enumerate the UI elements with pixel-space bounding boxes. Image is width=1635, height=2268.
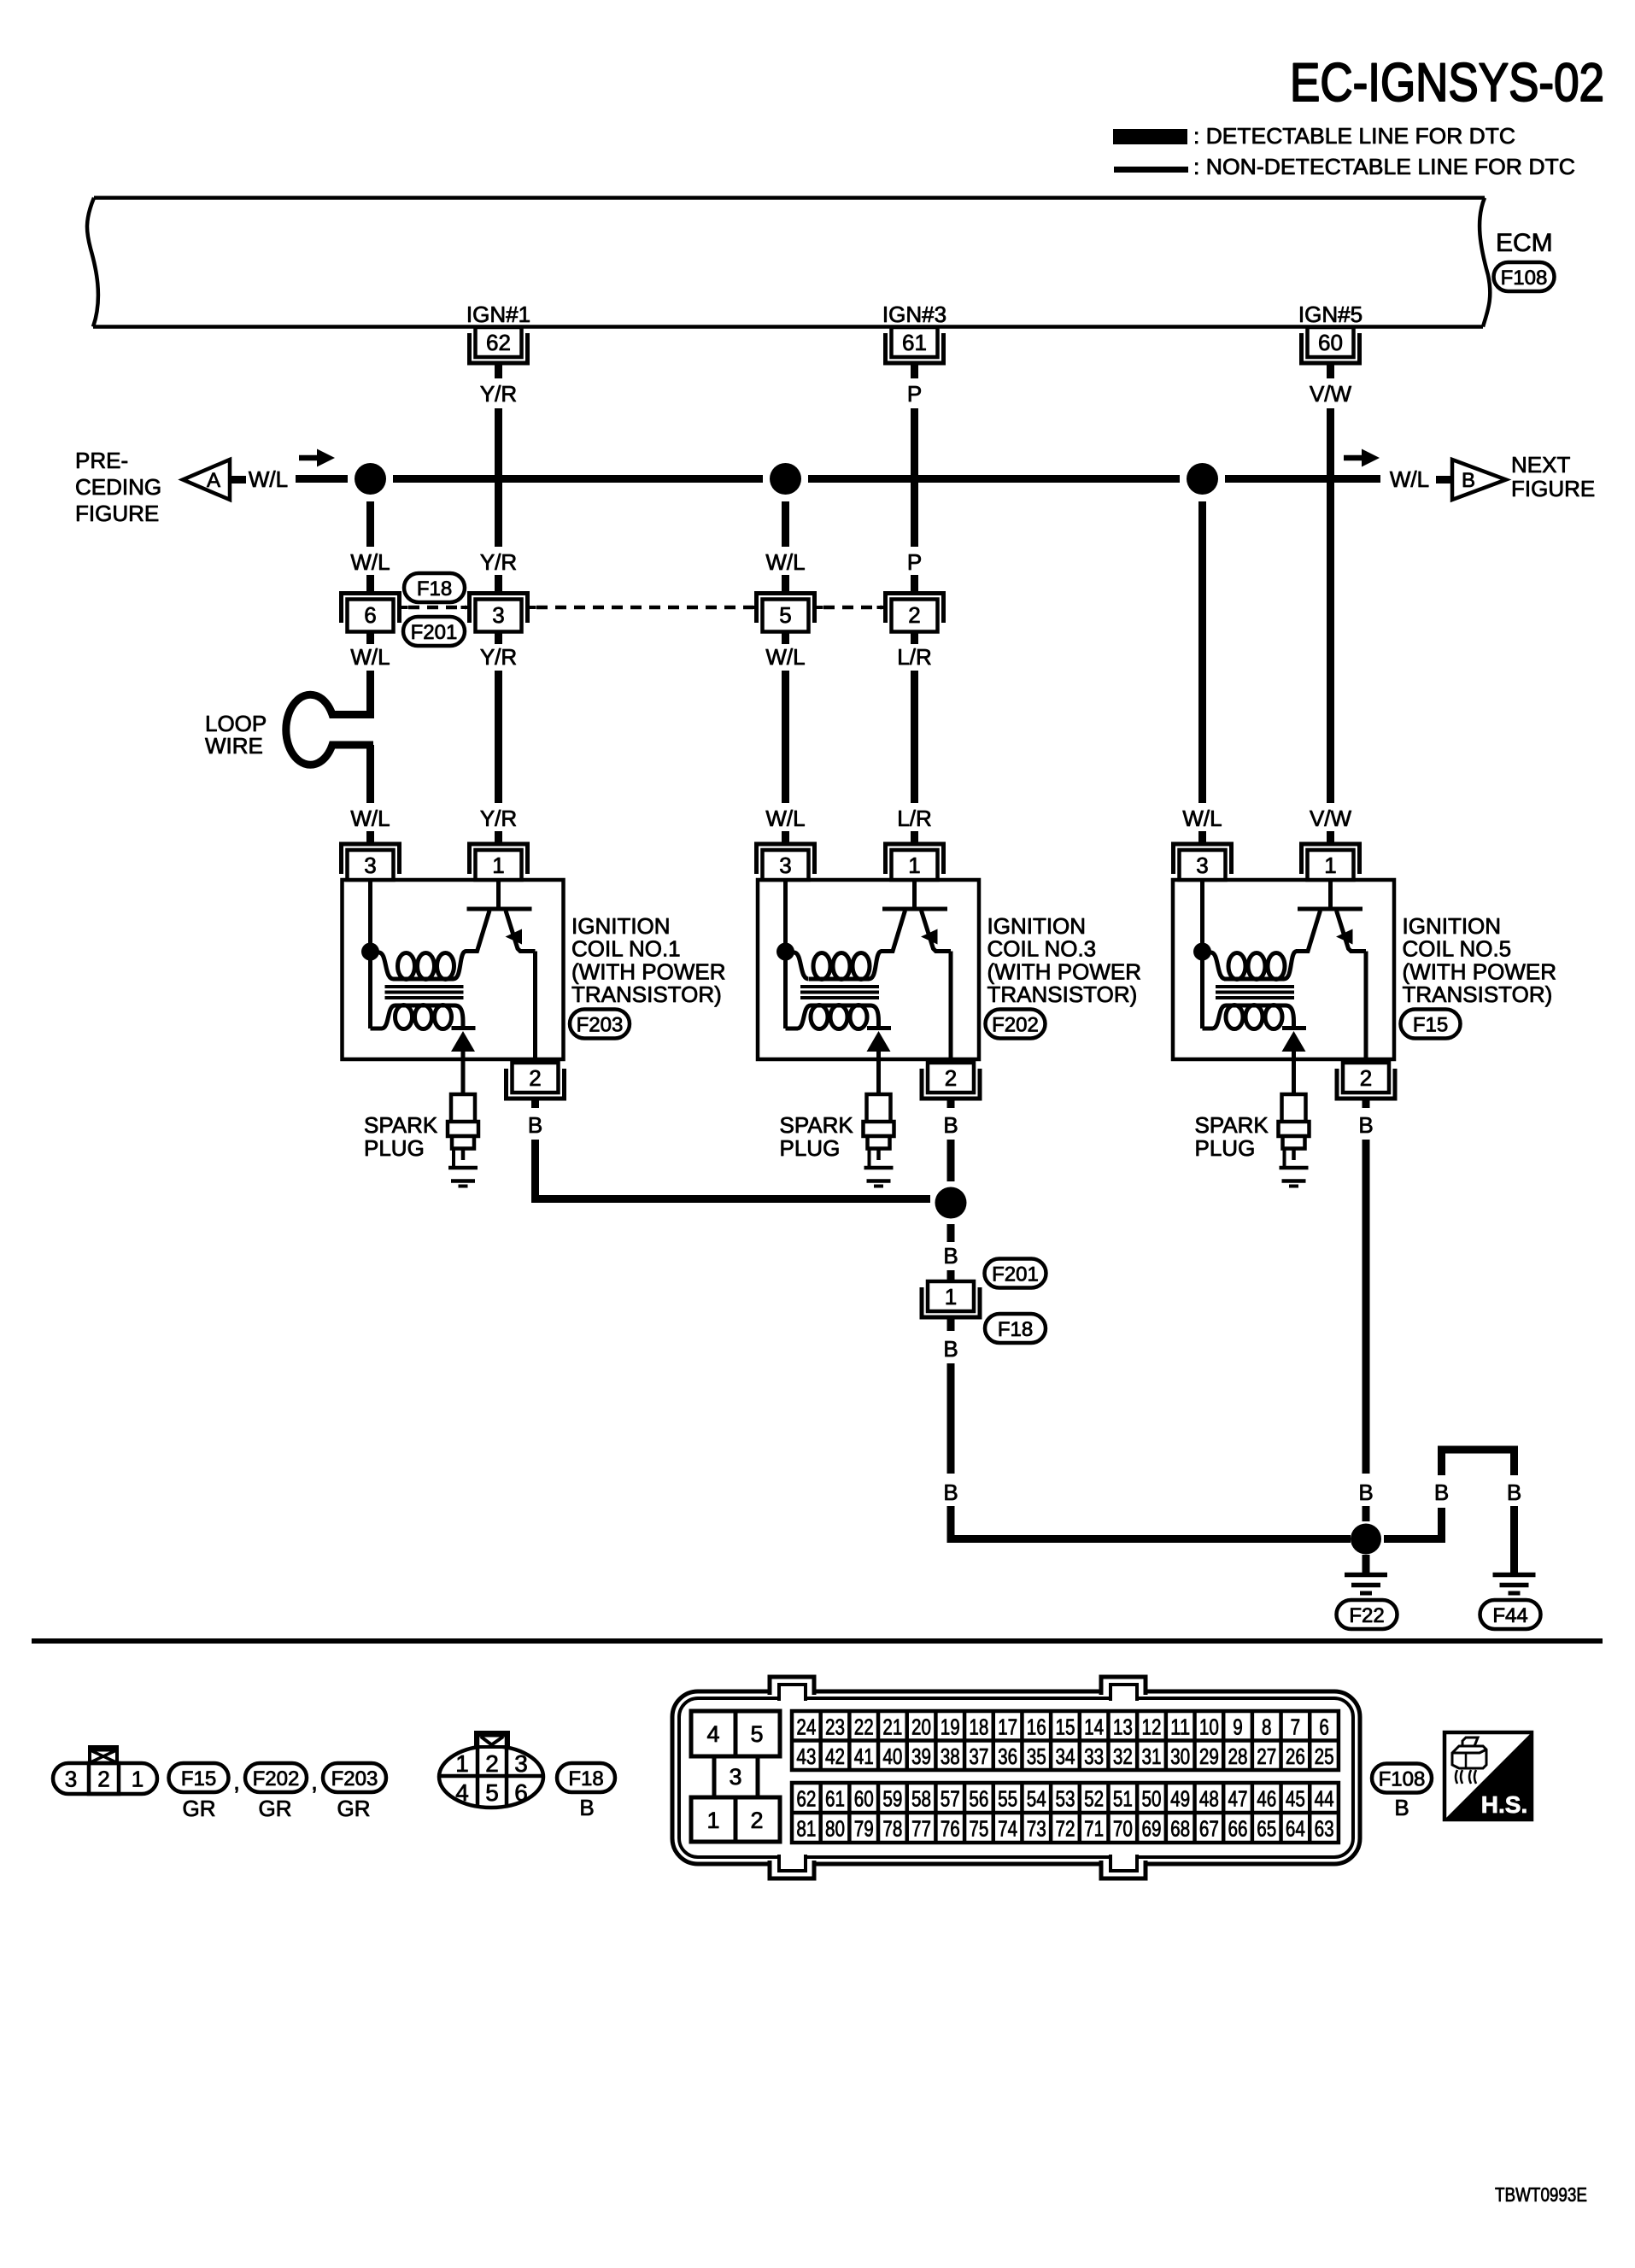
ECM pin label IGN#1: [466, 302, 530, 327]
comma: [233, 1768, 240, 1795]
svg-text:F108: F108: [1379, 1768, 1426, 1791]
B wire corner to ground junction: [951, 1506, 1351, 1539]
transformer core: [1216, 987, 1294, 998]
svg-text:F18: F18: [998, 1318, 1033, 1341]
svg-text:49: 49: [1170, 1786, 1190, 1812]
coil pin 3 connector: [757, 844, 815, 880]
ECM pin connector 62: [470, 327, 528, 363]
svg-text:3: 3: [492, 602, 504, 628]
wire stub below pin 60: [1327, 363, 1334, 378]
svg-text:17: 17: [998, 1714, 1017, 1739]
svg-text:8: 8: [1262, 1714, 1272, 1739]
F15 connector oval: [169, 1763, 229, 1792]
svg-text:IGN#3: IGN#3: [882, 302, 946, 327]
separator line: [32, 1638, 1603, 1644]
comma: [311, 1768, 318, 1795]
connector key block: [691, 1711, 780, 1842]
wire label W/L: [765, 644, 805, 670]
svg-text:TRANSISTOR): TRANSISTOR): [987, 982, 1138, 1007]
primary feed wire inside coil: [1200, 880, 1204, 1029]
svg-text:52: 52: [1084, 1786, 1104, 1812]
junction dot B wires: [935, 1187, 967, 1219]
svg-text:15: 15: [1055, 1714, 1075, 1739]
svg-text:B: B: [1462, 469, 1475, 492]
svg-text:13: 13: [1113, 1714, 1133, 1739]
svg-text:9: 9: [1233, 1714, 1243, 1739]
svg-text:27: 27: [1257, 1743, 1276, 1769]
svg-text:63: 63: [1315, 1816, 1334, 1842]
F18 connector oval: [404, 573, 465, 602]
svg-text:81: 81: [796, 1816, 816, 1842]
round connector face F18: [439, 1732, 543, 1808]
wire label Y/R: [480, 549, 517, 575]
loop wire: [286, 694, 373, 765]
svg-text:W/L: W/L: [350, 644, 390, 670]
B label: [579, 1795, 594, 1820]
power transistor collector: [881, 911, 905, 952]
wire W/L with loop: [366, 671, 374, 718]
svg-text:21: 21: [882, 1714, 902, 1739]
coil connector face 3-2-1: [53, 1747, 157, 1794]
wire label W/L: [765, 549, 805, 575]
spark plug ground: [1280, 1168, 1309, 1187]
wire label B: [943, 1112, 958, 1138]
svg-text:FIGURE: FIGURE: [75, 501, 159, 526]
spark plug ground: [864, 1168, 894, 1187]
svg-text:Y/R: Y/R: [480, 644, 517, 670]
svg-text:: NON-DETECTABLE LINE FOR DTC: : NON-DETECTABLE LINE FOR DTC: [1193, 154, 1575, 179]
svg-text:F18: F18: [568, 1767, 603, 1790]
wire W/L from bus dot down: [366, 501, 374, 547]
svg-text:6: 6: [514, 1779, 528, 1806]
wire label B (right arm): [1507, 1480, 1521, 1505]
svg-text:3: 3: [514, 1750, 528, 1777]
spark plug: [864, 1094, 894, 1168]
power transistor emitter with arrow: [506, 911, 536, 1060]
dashed mating line 6-3: [408, 606, 466, 610]
coil pin 2 connector: [922, 1063, 980, 1099]
primary feed wire inside coil: [368, 880, 372, 1029]
svg-text:P: P: [907, 381, 922, 407]
spark plug wire: [461, 1060, 466, 1097]
svg-text:W/L: W/L: [1390, 466, 1429, 492]
wire label P: [907, 549, 922, 575]
svg-text:GR: GR: [259, 1796, 292, 1821]
transformer primary winding: [371, 952, 466, 980]
wire: [782, 575, 789, 593]
power transistor base bar: [1298, 907, 1362, 911]
svg-text:IGN#1: IGN#1: [466, 302, 530, 327]
svg-text:64: 64: [1286, 1816, 1305, 1842]
wire W/L from bus dot 3 to coil 5: [1198, 501, 1206, 803]
coil pin 2 connector: [1337, 1063, 1395, 1099]
svg-text:5: 5: [485, 1779, 499, 1806]
svg-text:24: 24: [796, 1714, 816, 1739]
svg-text:B: B: [1394, 1795, 1409, 1820]
svg-text:12: 12: [1142, 1714, 1162, 1739]
svg-text:F15: F15: [1413, 1014, 1448, 1037]
wire W/L below loop: [366, 745, 374, 803]
ECM connector pin grid upper (6-43): [792, 1711, 1339, 1770]
ground symbol F44: [1493, 1575, 1536, 1594]
triangle A (preceding figure): [183, 460, 230, 500]
loop wire label: [205, 711, 267, 759]
svg-text:W/L: W/L: [1182, 806, 1222, 831]
B wire from coil 5 down: [1362, 1140, 1370, 1474]
wire label B: [1358, 1112, 1373, 1138]
wire stub below connector (W/L): [366, 632, 374, 644]
legend detectable line: [1113, 123, 1515, 149]
svg-text:28: 28: [1228, 1743, 1248, 1769]
svg-text:59: 59: [882, 1786, 902, 1812]
wire stub into coil pin: [495, 831, 502, 846]
coil pin 1 connector: [886, 844, 944, 880]
svg-text:39: 39: [911, 1743, 931, 1769]
svg-text:14: 14: [1084, 1714, 1104, 1739]
svg-text:PLUG: PLUG: [780, 1135, 841, 1161]
wire: [495, 575, 502, 593]
svg-text:62: 62: [486, 330, 511, 355]
svg-text:80: 80: [825, 1816, 845, 1842]
svg-text:B: B: [579, 1795, 594, 1820]
spark plug: [1279, 1094, 1310, 1168]
coil pin 3 connector: [342, 844, 400, 880]
transformer core: [800, 987, 879, 998]
wire V/W from ECM 60 to coil 5: [1327, 408, 1334, 803]
svg-text:B: B: [1358, 1480, 1373, 1505]
svg-text:47: 47: [1228, 1786, 1248, 1812]
svg-text:F202: F202: [253, 1767, 300, 1790]
svg-text:Y/R: Y/R: [480, 549, 517, 575]
inline connector 6: [342, 594, 408, 632]
svg-text:58: 58: [911, 1786, 931, 1812]
svg-text:L/R: L/R: [897, 806, 931, 831]
preceding figure label: [75, 448, 161, 526]
svg-text:43: 43: [796, 1743, 816, 1769]
svg-text:: DETECTABLE LINE FOR DTC: : DETECTABLE LINE FOR DTC: [1193, 123, 1515, 149]
F201 connector oval: [985, 1259, 1046, 1288]
svg-text:W/L: W/L: [765, 549, 805, 575]
wire label W/L: [765, 806, 805, 831]
ECM connector face outline: [672, 1691, 1360, 1864]
svg-text:1: 1: [1324, 853, 1336, 878]
wire label W/L: [350, 644, 390, 670]
F203 connector oval: [570, 1010, 630, 1039]
svg-text:B: B: [943, 1243, 958, 1269]
power transistor base bar: [882, 907, 947, 911]
svg-text:74: 74: [998, 1816, 1017, 1842]
svg-text:W/L: W/L: [765, 806, 805, 831]
F108 connector oval (bottom): [1372, 1764, 1432, 1793]
wire label B (left arm): [1434, 1480, 1449, 1505]
secondary diode: [1282, 1029, 1307, 1061]
inline connector 5: [748, 594, 823, 632]
svg-text:B: B: [943, 1480, 958, 1505]
next figure label: [1511, 452, 1595, 501]
svg-text:61: 61: [902, 330, 927, 355]
wire label W/L: [1182, 806, 1222, 831]
wire below junction to ground F22: [1362, 1555, 1370, 1573]
wire down to coil: [782, 671, 789, 803]
spark plug wire: [876, 1060, 881, 1097]
wire stub below pin 62: [495, 363, 502, 378]
svg-text:B: B: [1507, 1480, 1521, 1505]
W/L bus wire: [296, 475, 1380, 483]
coil pin 2 connector: [507, 1063, 565, 1099]
F15 connector oval: [1401, 1010, 1461, 1039]
svg-text:V/W: V/W: [1310, 806, 1352, 831]
svg-text:SPARK: SPARK: [1195, 1112, 1269, 1138]
transformer primary winding: [786, 952, 882, 980]
svg-text:PRE-: PRE-: [75, 448, 128, 473]
spark plug wire: [1292, 1060, 1296, 1097]
svg-text:38: 38: [941, 1743, 960, 1769]
B label: [1394, 1795, 1409, 1820]
F108 connector oval (ECM): [1494, 262, 1555, 291]
B wire to ground junction: [1362, 1506, 1370, 1521]
power transistor base bar: [467, 907, 532, 911]
svg-text:34: 34: [1055, 1743, 1075, 1769]
wire label Y/R: [480, 644, 517, 670]
svg-text:46: 46: [1257, 1786, 1276, 1812]
inline connector 1 (F201/F18): [922, 1281, 980, 1317]
svg-text:F44: F44: [1492, 1604, 1527, 1627]
wire stub into coil pin: [911, 831, 918, 846]
F18 connector oval: [557, 1763, 615, 1792]
wire label W/L: [350, 549, 390, 575]
svg-text:2: 2: [945, 1065, 957, 1091]
inline connector 3: [461, 594, 536, 632]
svg-text:B: B: [943, 1336, 958, 1362]
svg-text:44: 44: [1315, 1786, 1334, 1812]
svg-text:71: 71: [1084, 1816, 1104, 1842]
wire B below junction: [947, 1224, 955, 1242]
svg-text:40: 40: [882, 1743, 902, 1769]
svg-text:60: 60: [1318, 330, 1343, 355]
ignition coil no.1 label: [571, 913, 726, 1007]
svg-text:3: 3: [65, 1767, 77, 1792]
svg-text:65: 65: [1257, 1816, 1276, 1842]
transformer primary winding: [1203, 952, 1298, 980]
svg-text:3: 3: [729, 1764, 741, 1790]
wire label B: [943, 1336, 958, 1362]
svg-text:4: 4: [706, 1721, 719, 1747]
wire stub B: [531, 1099, 539, 1108]
ECM pin connector 61: [886, 327, 944, 363]
wire label V/W: [1310, 806, 1352, 831]
svg-text:61: 61: [825, 1786, 845, 1812]
svg-text:25: 25: [1315, 1743, 1334, 1769]
wire label Y/R: [480, 806, 517, 831]
svg-text:3: 3: [1196, 853, 1208, 878]
power transistor collector: [1296, 911, 1321, 952]
svg-text:48: 48: [1199, 1786, 1219, 1812]
wire Y/R crossing bus: [495, 408, 502, 547]
wire: [366, 575, 374, 593]
connector bottom tabs: [770, 1855, 1146, 1878]
svg-text:Y/R: Y/R: [480, 806, 517, 831]
secondary diode: [867, 1029, 892, 1061]
transformer secondary winding: [1203, 1005, 1294, 1029]
svg-text:A: A: [207, 469, 220, 492]
wire label L/R: [897, 806, 931, 831]
svg-text:,: ,: [233, 1768, 240, 1795]
svg-text:20: 20: [911, 1714, 931, 1739]
arrow right (right side): [1344, 449, 1380, 467]
svg-text:31: 31: [1142, 1743, 1162, 1769]
svg-text:70: 70: [1113, 1816, 1133, 1842]
svg-text:18: 18: [969, 1714, 988, 1739]
junction dot bus 3: [1187, 463, 1218, 495]
svg-text:23: 23: [825, 1714, 845, 1739]
svg-text:(WITH POWER: (WITH POWER: [987, 958, 1142, 984]
wire P crossing bus: [911, 408, 918, 547]
wire label W/L left: [249, 466, 288, 492]
svg-text:TBWT0993E: TBWT0993E: [1495, 2183, 1587, 2206]
svg-text:W/L: W/L: [765, 644, 805, 670]
triangle B (next figure): [1452, 460, 1506, 500]
svg-text:1: 1: [945, 1284, 957, 1310]
wire: [911, 575, 918, 593]
svg-text:26: 26: [1286, 1743, 1305, 1769]
ECM connector pin grid lower (44-81): [792, 1783, 1339, 1843]
wire label B: [943, 1243, 958, 1269]
svg-text:F18: F18: [417, 577, 452, 601]
ECM label: [1496, 229, 1553, 257]
svg-text:2: 2: [908, 602, 920, 628]
F202 connector oval: [986, 1010, 1046, 1039]
svg-text:2: 2: [750, 1808, 763, 1833]
svg-text:56: 56: [969, 1786, 988, 1812]
ignition coil no.1 box (F203): [343, 880, 564, 1059]
svg-text:W/L: W/L: [350, 806, 390, 831]
junction dot primary: [361, 943, 379, 961]
svg-text:75: 75: [969, 1816, 988, 1842]
inline connector 2: [877, 594, 944, 632]
wire label B: [528, 1112, 542, 1138]
svg-text:10: 10: [1199, 1714, 1219, 1739]
svg-text:2: 2: [485, 1750, 499, 1777]
ground junction dot: [1351, 1524, 1381, 1555]
wire stub into coil pin: [1327, 831, 1334, 846]
svg-text:IGN#5: IGN#5: [1298, 302, 1362, 327]
svg-text:IGNITION: IGNITION: [571, 913, 671, 939]
stub to triangle B: [1436, 476, 1452, 483]
svg-text:SPARK: SPARK: [364, 1112, 438, 1138]
svg-text:PLUG: PLUG: [364, 1135, 425, 1161]
H.S. logo: [1445, 1732, 1532, 1820]
svg-text:37: 37: [969, 1743, 988, 1769]
F201 connector oval: [403, 617, 465, 646]
svg-text:76: 76: [941, 1816, 960, 1842]
svg-text:F201: F201: [411, 621, 458, 644]
wire stub below connector 1: [947, 1317, 955, 1331]
figure code TBWT0993E: [1495, 2183, 1587, 2206]
coil pin 3 connector: [1174, 844, 1232, 880]
svg-text:73: 73: [1027, 1816, 1046, 1842]
ECM pin label IGN#5: [1298, 302, 1362, 327]
power transistor collector: [466, 911, 490, 952]
legend non-detectable line: [1114, 154, 1575, 179]
ECM box (F108): [87, 198, 1490, 327]
junction dot primary: [1193, 943, 1211, 961]
svg-text:V/W: V/W: [1310, 381, 1352, 407]
svg-text:22: 22: [854, 1714, 874, 1739]
B wire from coil 3 down: [947, 1140, 955, 1181]
power transistor emitter with arrow: [1336, 911, 1366, 1060]
svg-text:TRANSISTOR): TRANSISTOR): [571, 982, 722, 1007]
wire label P: [907, 381, 922, 407]
svg-text:COIL NO.1: COIL NO.1: [571, 936, 681, 962]
coil pin 1 connector: [470, 844, 528, 880]
svg-text:(WITH POWER: (WITH POWER: [1403, 958, 1557, 984]
svg-text:1: 1: [132, 1767, 144, 1792]
svg-text:62: 62: [796, 1786, 816, 1812]
power transistor base wire: [496, 880, 501, 909]
ignition coil no.3 box (F202): [758, 880, 979, 1059]
F44 connector oval: [1480, 1600, 1541, 1629]
svg-text:42: 42: [825, 1743, 845, 1769]
svg-text:51: 51: [1113, 1786, 1133, 1812]
svg-text:6: 6: [1319, 1714, 1329, 1739]
wire stub below connector (W/L): [782, 632, 789, 644]
svg-text:67: 67: [1199, 1816, 1219, 1842]
wire label B: [1358, 1480, 1373, 1505]
wire down to coil: [495, 671, 502, 803]
svg-text:29: 29: [1199, 1743, 1219, 1769]
power transistor base wire: [912, 880, 917, 909]
svg-text:WIRE: WIRE: [205, 733, 263, 759]
svg-text:(WITH POWER: (WITH POWER: [571, 958, 726, 984]
F18 connector oval: [985, 1314, 1046, 1343]
svg-text:CEDING: CEDING: [75, 474, 161, 500]
svg-text:P: P: [907, 549, 922, 575]
wire stub below pin 61: [911, 363, 918, 378]
svg-text:68: 68: [1170, 1816, 1190, 1842]
wire stub into coil pin: [1198, 831, 1206, 846]
svg-text:GR: GR: [183, 1796, 216, 1821]
svg-text:45: 45: [1286, 1786, 1305, 1812]
svg-text:EC-IGNSYS-02: EC-IGNSYS-02: [1290, 53, 1604, 113]
wire label L/R: [897, 644, 931, 670]
svg-text:77: 77: [911, 1816, 931, 1842]
svg-text:3: 3: [779, 853, 791, 878]
svg-text:50: 50: [1142, 1786, 1162, 1812]
svg-text:H.S.: H.S.: [1481, 1791, 1527, 1818]
ground symbol F22: [1345, 1575, 1387, 1594]
dashed mating line 5-2: [823, 606, 882, 610]
svg-text:3: 3: [364, 853, 376, 878]
spark plug label: [364, 1112, 438, 1161]
power transistor emitter with arrow: [921, 911, 951, 1060]
svg-text:55: 55: [998, 1786, 1017, 1812]
svg-text:2: 2: [1360, 1065, 1372, 1091]
svg-text:2: 2: [529, 1065, 541, 1091]
svg-text:5: 5: [750, 1721, 763, 1747]
wire stub below connector (Y/R): [495, 632, 502, 644]
wire label B: [943, 1480, 958, 1505]
svg-text:ECM: ECM: [1496, 229, 1553, 257]
svg-text:60: 60: [854, 1786, 874, 1812]
wire stub below connector (L/R): [911, 632, 918, 644]
wire label W/L right: [1390, 466, 1429, 492]
svg-text:L/R: L/R: [897, 644, 931, 670]
F202 connector oval: [245, 1763, 307, 1792]
svg-text:32: 32: [1113, 1743, 1133, 1769]
svg-text:FIGURE: FIGURE: [1511, 476, 1595, 501]
svg-text:7: 7: [1291, 1714, 1301, 1739]
svg-text:1: 1: [455, 1750, 469, 1777]
